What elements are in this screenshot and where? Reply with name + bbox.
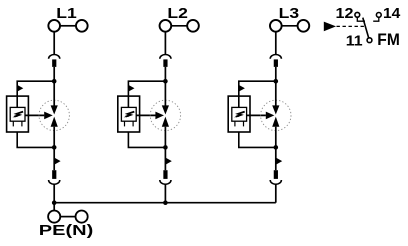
svg-text:L2: L2 (167, 5, 188, 22)
svg-text:L3: L3 (279, 5, 300, 22)
svg-text:12: 12 (336, 6, 354, 22)
svg-text:11: 11 (346, 34, 363, 50)
svg-text:14: 14 (383, 6, 400, 22)
svg-text:FM: FM (377, 31, 400, 49)
svg-text:PE(N): PE(N) (39, 223, 94, 239)
svg-text:L1: L1 (56, 5, 77, 22)
